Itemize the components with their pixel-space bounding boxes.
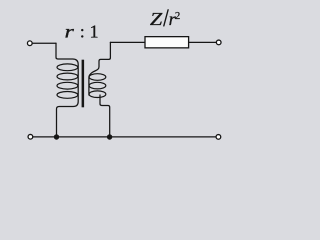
transformer T1 secondary winding (3 turns)	[89, 74, 106, 98]
terminal: output bottom (open circle)	[216, 135, 221, 140]
svg-text::: :	[80, 22, 85, 42]
svg-text:2: 2	[175, 10, 180, 22]
wire: secondary bottom lead with jog	[100, 95, 110, 135]
terminal: output top (open circle)	[216, 40, 221, 45]
transformer T1 primary winding (4 turns)	[57, 64, 78, 98]
wire: top-right horizontal to resistor	[110, 41, 144, 43]
junction dot right	[107, 134, 112, 139]
svg-text:Z: Z	[150, 10, 163, 30]
junction dot left	[54, 134, 59, 139]
svg-text:r: r	[65, 21, 75, 41]
svg-text:1: 1	[90, 22, 99, 42]
label r : 1	[65, 21, 99, 41]
resistor Z/r^2 box	[145, 37, 189, 48]
terminal: input bottom (open circle)	[28, 134, 33, 139]
wire: resistor to output terminal	[189, 41, 216, 43]
wire: top-left horizontal from input terminal	[33, 42, 56, 44]
wire: secondary top lead with jog	[89, 42, 111, 95]
terminal: input top (open circle)	[27, 41, 32, 46]
wire: bottom rail	[33, 136, 216, 138]
transformer T1 core	[82, 60, 85, 108]
label Z/r^2	[150, 9, 180, 29]
wire: primary top lead with corner down into winding	[56, 43, 78, 135]
